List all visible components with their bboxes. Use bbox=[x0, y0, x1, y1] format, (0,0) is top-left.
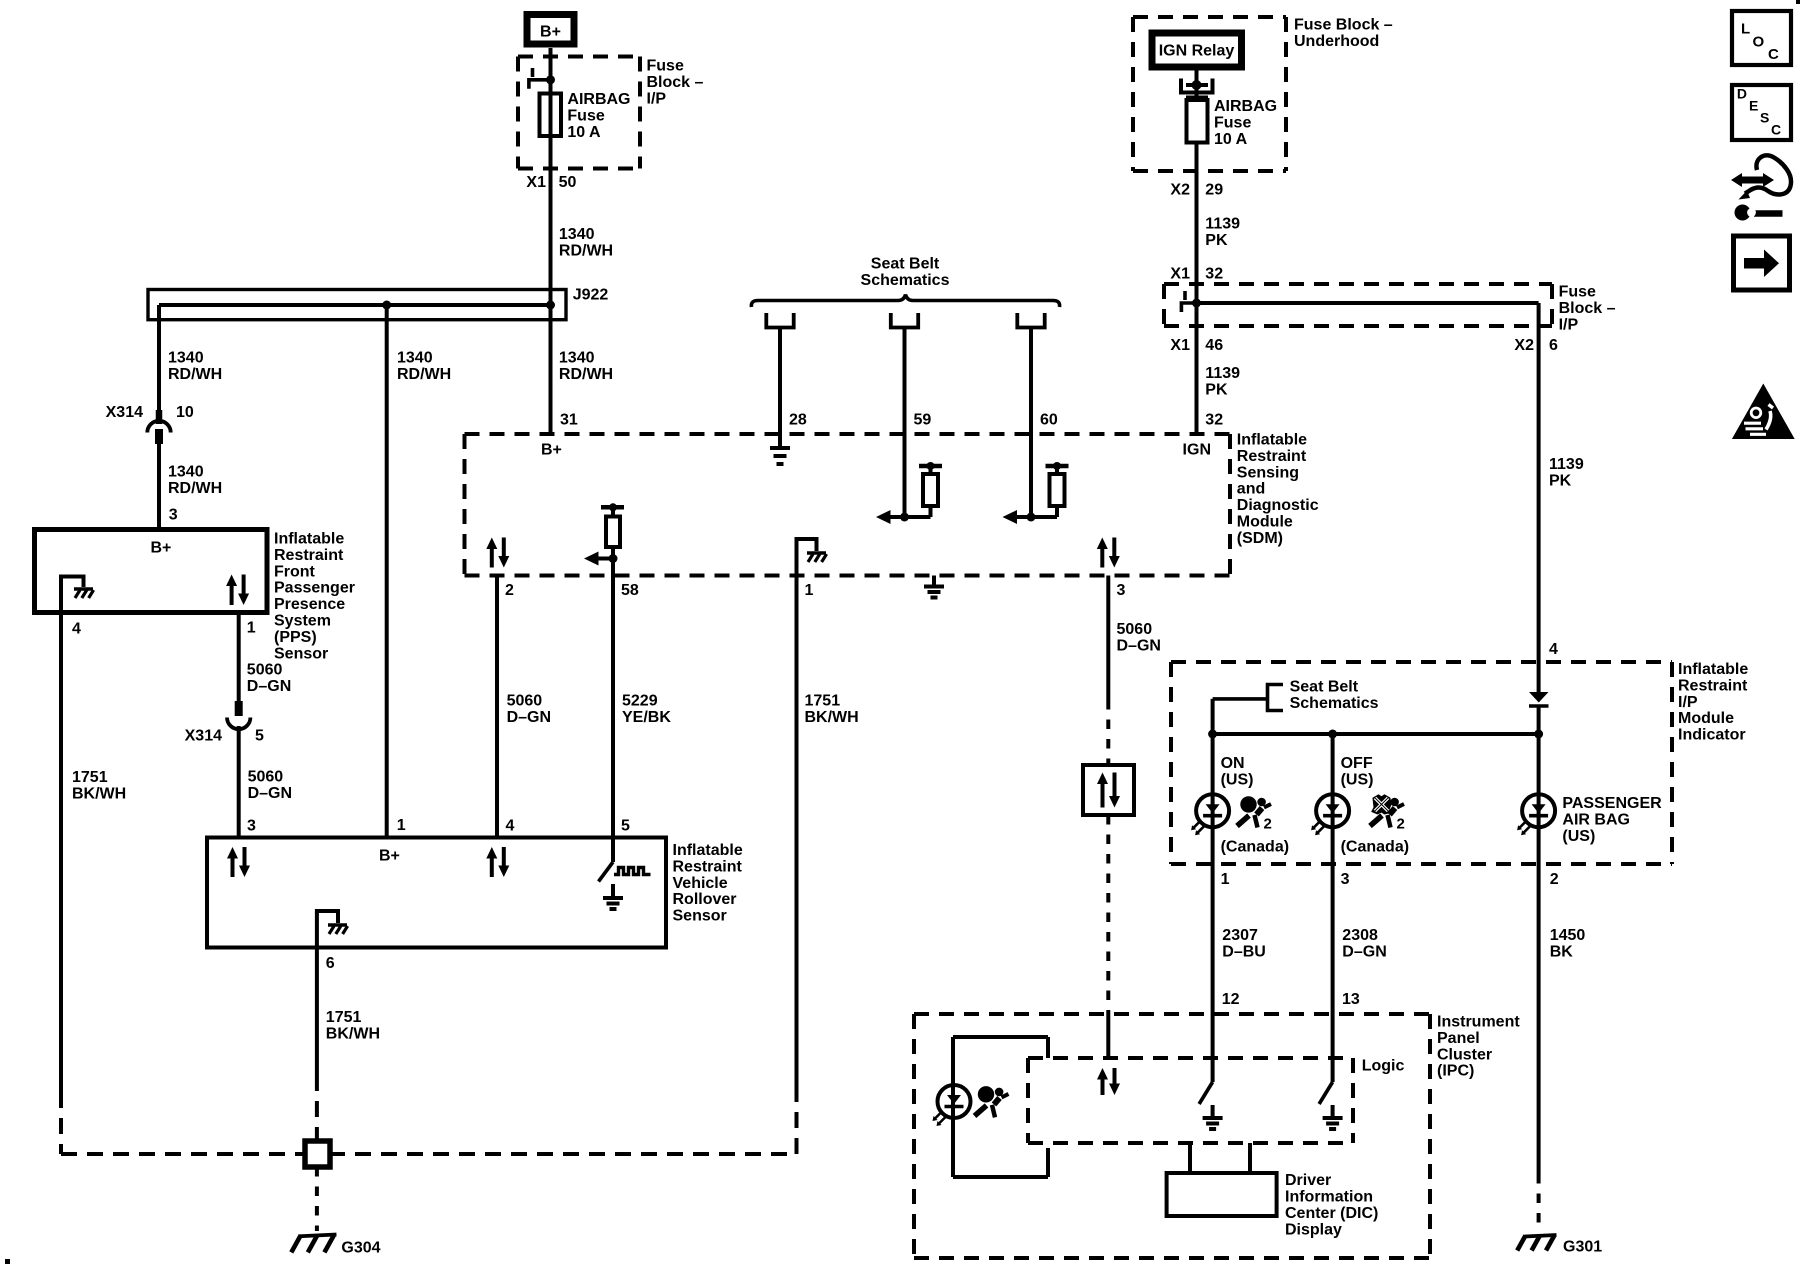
svg-text:3: 3 bbox=[247, 818, 256, 835]
svg-text:Information: Information bbox=[1285, 1189, 1373, 1206]
svg-text:Fuse Block –: Fuse Block – bbox=[1294, 17, 1393, 34]
svg-text:5229: 5229 bbox=[622, 693, 658, 710]
svg-text:28: 28 bbox=[789, 412, 807, 429]
svg-text:BK/WH: BK/WH bbox=[72, 786, 126, 803]
svg-text:S: S bbox=[1760, 110, 1769, 126]
svg-text:Restraint: Restraint bbox=[274, 547, 344, 564]
svg-text:Fuse: Fuse bbox=[647, 58, 684, 75]
svg-text:Sensor: Sensor bbox=[274, 645, 328, 662]
svg-text:OFF: OFF bbox=[1341, 755, 1373, 772]
svg-text:2: 2 bbox=[1397, 816, 1405, 833]
svg-text:ON: ON bbox=[1221, 755, 1245, 772]
svg-text:32: 32 bbox=[1205, 412, 1223, 429]
svg-text:D–GN: D–GN bbox=[247, 678, 291, 695]
svg-text:58: 58 bbox=[621, 582, 639, 599]
svg-text:1139: 1139 bbox=[1205, 216, 1240, 233]
svg-text:1139: 1139 bbox=[1549, 456, 1584, 473]
svg-text:Restraint: Restraint bbox=[1678, 677, 1748, 694]
svg-text:2: 2 bbox=[1264, 816, 1272, 833]
svg-text:46: 46 bbox=[1205, 337, 1223, 354]
svg-text:(PPS): (PPS) bbox=[274, 629, 317, 646]
svg-text:1340: 1340 bbox=[397, 349, 433, 366]
svg-text:PK: PK bbox=[1549, 473, 1572, 490]
svg-text:Vehicle: Vehicle bbox=[673, 875, 728, 892]
svg-text:Fuse: Fuse bbox=[1559, 284, 1596, 301]
svg-text:12: 12 bbox=[1222, 991, 1240, 1008]
svg-text:PK: PK bbox=[1205, 382, 1228, 399]
svg-text:D–GN: D–GN bbox=[248, 785, 292, 802]
svg-text:PK: PK bbox=[1205, 232, 1228, 249]
svg-text:AIRBAG: AIRBAG bbox=[567, 91, 630, 108]
svg-text:4: 4 bbox=[506, 818, 515, 835]
svg-text:2: 2 bbox=[1550, 871, 1559, 888]
svg-text:Seat Belt: Seat Belt bbox=[871, 256, 940, 273]
svg-text:D–GN: D–GN bbox=[1117, 638, 1161, 655]
svg-text:Inflatable: Inflatable bbox=[1678, 661, 1748, 678]
svg-text:BK: BK bbox=[1550, 944, 1574, 961]
svg-text:(US): (US) bbox=[1341, 772, 1374, 789]
svg-text:X2: X2 bbox=[1514, 337, 1534, 354]
svg-text:5060: 5060 bbox=[247, 662, 283, 679]
svg-text:50: 50 bbox=[559, 174, 577, 191]
svg-text:10 A: 10 A bbox=[1214, 131, 1248, 148]
svg-text:Restraint: Restraint bbox=[673, 858, 743, 875]
svg-text:5: 5 bbox=[255, 727, 264, 744]
svg-text:1139: 1139 bbox=[1205, 365, 1240, 382]
svg-text:C: C bbox=[1771, 122, 1781, 138]
svg-text:X1: X1 bbox=[526, 174, 546, 191]
svg-text:I/P: I/P bbox=[647, 90, 667, 107]
svg-text:E: E bbox=[1749, 98, 1758, 114]
svg-text:13: 13 bbox=[1342, 991, 1360, 1008]
svg-text:Panel: Panel bbox=[1437, 1030, 1480, 1047]
svg-text:6: 6 bbox=[326, 955, 335, 972]
svg-text:Logic: Logic bbox=[1362, 1058, 1405, 1075]
svg-text:3: 3 bbox=[169, 507, 178, 524]
svg-text:X314: X314 bbox=[106, 404, 143, 421]
svg-text:B+: B+ bbox=[379, 848, 400, 865]
svg-text:4: 4 bbox=[1549, 641, 1558, 658]
svg-text:Module: Module bbox=[1237, 514, 1293, 531]
svg-text:59: 59 bbox=[914, 412, 932, 429]
svg-text:X2: X2 bbox=[1170, 182, 1190, 199]
svg-text:RD/WH: RD/WH bbox=[559, 243, 613, 260]
svg-text:Indicator: Indicator bbox=[1678, 727, 1746, 744]
svg-text:2: 2 bbox=[505, 582, 514, 599]
svg-text:2308: 2308 bbox=[1342, 927, 1378, 944]
svg-text:31: 31 bbox=[560, 412, 578, 429]
svg-text:Underhood: Underhood bbox=[1294, 33, 1379, 50]
svg-text:X1: X1 bbox=[1170, 266, 1190, 283]
svg-text:(IPC): (IPC) bbox=[1437, 1063, 1474, 1080]
svg-text:1: 1 bbox=[247, 620, 256, 637]
svg-text:(Canada): (Canada) bbox=[1221, 839, 1289, 856]
svg-text:1: 1 bbox=[805, 582, 814, 599]
svg-text:5060: 5060 bbox=[507, 693, 543, 710]
svg-text:D–GN: D–GN bbox=[1342, 944, 1386, 961]
svg-text:Seat Belt: Seat Belt bbox=[1290, 679, 1359, 696]
svg-text:O: O bbox=[1753, 34, 1765, 51]
svg-text:IGN Relay: IGN Relay bbox=[1159, 43, 1235, 60]
svg-text:AIR BAG: AIR BAG bbox=[1562, 812, 1630, 829]
svg-text:BK/WH: BK/WH bbox=[326, 1026, 380, 1043]
svg-text:Sensing: Sensing bbox=[1237, 464, 1299, 481]
svg-text:Inflatable: Inflatable bbox=[673, 842, 743, 859]
svg-text:Center (DIC): Center (DIC) bbox=[1285, 1205, 1378, 1222]
svg-text:I/P: I/P bbox=[1678, 694, 1698, 711]
svg-text:D–GN: D–GN bbox=[507, 709, 551, 726]
svg-text:X314: X314 bbox=[185, 727, 222, 744]
svg-text:Block –: Block – bbox=[1559, 300, 1616, 317]
svg-text:J922: J922 bbox=[573, 287, 609, 304]
svg-text:1340: 1340 bbox=[559, 349, 595, 366]
svg-text:L: L bbox=[1741, 21, 1750, 38]
svg-text:B+: B+ bbox=[541, 442, 562, 459]
svg-text:AIRBAG: AIRBAG bbox=[1214, 98, 1277, 115]
svg-text:C: C bbox=[1768, 46, 1779, 63]
svg-text:Passenger: Passenger bbox=[274, 580, 355, 597]
svg-text:Presence: Presence bbox=[274, 596, 345, 613]
svg-text:Inflatable: Inflatable bbox=[1237, 432, 1307, 449]
svg-text:1450: 1450 bbox=[1550, 927, 1586, 944]
svg-text:RD/WH: RD/WH bbox=[397, 366, 451, 383]
svg-text:(US): (US) bbox=[1562, 828, 1595, 845]
svg-text:Restraint: Restraint bbox=[1237, 448, 1307, 465]
svg-text:BK/WH: BK/WH bbox=[805, 709, 859, 726]
svg-text:1: 1 bbox=[397, 817, 406, 834]
svg-text:YE/BK: YE/BK bbox=[622, 709, 671, 726]
svg-text:D–BU: D–BU bbox=[1222, 944, 1266, 961]
svg-text:G304: G304 bbox=[341, 1239, 380, 1256]
svg-text:Cluster: Cluster bbox=[1437, 1046, 1492, 1063]
svg-text:B+: B+ bbox=[151, 540, 172, 557]
svg-text:(Canada): (Canada) bbox=[1341, 839, 1409, 856]
svg-text:Sensor: Sensor bbox=[673, 908, 727, 925]
svg-text:Fuse: Fuse bbox=[567, 108, 604, 125]
svg-text:60: 60 bbox=[1040, 412, 1058, 429]
svg-text:PASSENGER: PASSENGER bbox=[1562, 795, 1662, 812]
svg-text:RD/WH: RD/WH bbox=[168, 366, 222, 383]
svg-text:Diagnostic: Diagnostic bbox=[1237, 497, 1319, 514]
svg-text:and: and bbox=[1237, 481, 1265, 498]
svg-text:System: System bbox=[274, 613, 331, 630]
svg-text:Rollover: Rollover bbox=[673, 891, 737, 908]
svg-text:4: 4 bbox=[72, 621, 81, 638]
svg-text:1751: 1751 bbox=[326, 1009, 362, 1026]
svg-text:1340: 1340 bbox=[168, 349, 204, 366]
svg-text:Front: Front bbox=[274, 563, 316, 580]
svg-text:5060: 5060 bbox=[1117, 621, 1153, 638]
svg-text:6: 6 bbox=[1549, 337, 1558, 354]
svg-text:5060: 5060 bbox=[248, 769, 284, 786]
svg-text:(US): (US) bbox=[1221, 772, 1254, 789]
svg-text:2307: 2307 bbox=[1222, 927, 1258, 944]
svg-text:10 A: 10 A bbox=[567, 124, 601, 141]
svg-text:5: 5 bbox=[621, 818, 630, 835]
svg-text:Schematics: Schematics bbox=[861, 272, 950, 289]
svg-text:1: 1 bbox=[1221, 871, 1230, 888]
svg-text:RD/WH: RD/WH bbox=[168, 480, 222, 497]
svg-text:Instrument: Instrument bbox=[1437, 1014, 1520, 1031]
svg-text:1751: 1751 bbox=[72, 769, 108, 786]
svg-text:B+: B+ bbox=[540, 24, 561, 41]
svg-text:Block –: Block – bbox=[647, 74, 704, 91]
svg-text:3: 3 bbox=[1341, 871, 1350, 888]
svg-text:I/P: I/P bbox=[1559, 316, 1579, 333]
svg-text:(SDM): (SDM) bbox=[1237, 530, 1283, 547]
svg-text:3: 3 bbox=[1117, 582, 1126, 599]
svg-text:32: 32 bbox=[1205, 266, 1223, 283]
svg-text:X1: X1 bbox=[1170, 337, 1190, 354]
svg-text:RD/WH: RD/WH bbox=[559, 366, 613, 383]
svg-text:IGN: IGN bbox=[1183, 442, 1211, 459]
svg-text:Fuse: Fuse bbox=[1214, 114, 1251, 131]
svg-text:Display: Display bbox=[1285, 1222, 1342, 1239]
svg-text:29: 29 bbox=[1205, 182, 1223, 199]
svg-text:D: D bbox=[1737, 86, 1747, 102]
svg-text:Driver: Driver bbox=[1285, 1172, 1331, 1189]
svg-text:1340: 1340 bbox=[168, 464, 204, 481]
svg-text:1751: 1751 bbox=[805, 693, 841, 710]
svg-text:1340: 1340 bbox=[559, 226, 595, 243]
svg-text:G301: G301 bbox=[1563, 1239, 1602, 1256]
svg-text:10: 10 bbox=[176, 404, 194, 421]
svg-text:Module: Module bbox=[1678, 710, 1734, 727]
svg-text:Inflatable: Inflatable bbox=[274, 531, 344, 548]
svg-text:Schematics: Schematics bbox=[1290, 695, 1379, 712]
